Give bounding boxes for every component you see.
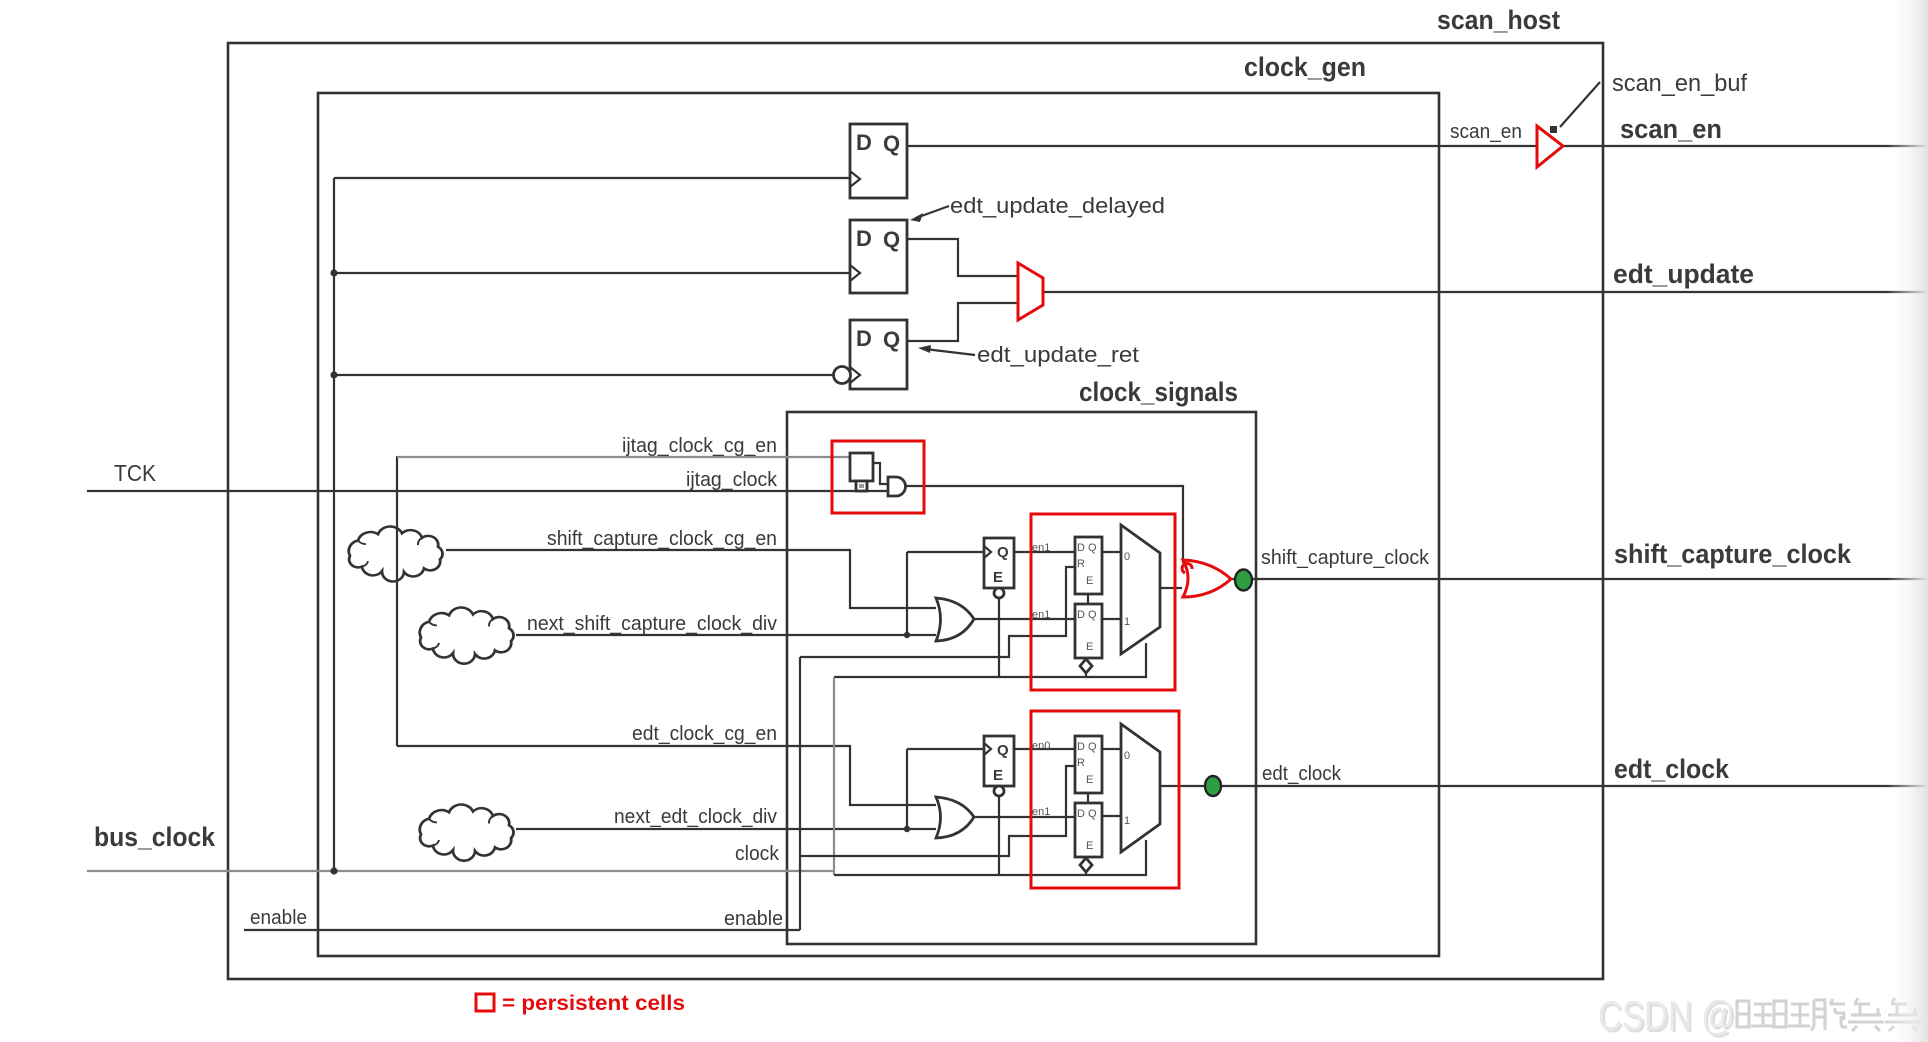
svg-text:scan_host: scan_host bbox=[1437, 5, 1560, 35]
svg-text:shift_capture_clock: shift_capture_clock bbox=[1614, 539, 1852, 569]
svg-text:shift_capture_clock: shift_capture_clock bbox=[1261, 547, 1430, 569]
svg-text:0: 0 bbox=[1124, 750, 1130, 762]
svg-text:CSDN @: CSDN @ bbox=[1598, 992, 1735, 1039]
svg-text:D: D bbox=[856, 326, 872, 351]
svg-text:clock: clock bbox=[735, 843, 780, 865]
svg-text:0: 0 bbox=[1124, 551, 1130, 563]
svg-text:next_edt_clock_div: next_edt_clock_div bbox=[614, 806, 777, 828]
svg-text:D: D bbox=[856, 130, 872, 155]
svg-text:E: E bbox=[993, 767, 1003, 784]
svg-text:shift_capture_clock_cg_en: shift_capture_clock_cg_en bbox=[547, 528, 777, 550]
svg-text:en1: en1 bbox=[1032, 609, 1050, 621]
svg-text:D Q: D Q bbox=[1077, 609, 1097, 621]
svg-text:ijtag_clock_cg_en: ijtag_clock_cg_en bbox=[622, 435, 777, 457]
svg-text:E: E bbox=[1086, 774, 1093, 786]
svg-text:clock_gen: clock_gen bbox=[1244, 52, 1366, 82]
svg-text:edt_clock_cg_en: edt_clock_cg_en bbox=[632, 723, 777, 745]
svg-text:edt_clock: edt_clock bbox=[1614, 754, 1730, 784]
svg-text:R: R bbox=[1077, 757, 1085, 769]
svg-text:E: E bbox=[1086, 641, 1093, 653]
svg-text:scan_en: scan_en bbox=[1620, 114, 1722, 144]
svg-text:ijtag_clock: ijtag_clock bbox=[686, 469, 778, 491]
svg-text:E: E bbox=[1086, 575, 1093, 587]
svg-text:D Q: D Q bbox=[1077, 542, 1097, 554]
svg-text:D Q: D Q bbox=[1077, 741, 1097, 753]
svg-text:enable: enable bbox=[250, 907, 307, 929]
svg-text:scan_en_buf: scan_en_buf bbox=[1612, 70, 1747, 97]
svg-text:E: E bbox=[1086, 840, 1093, 852]
svg-text:Q: Q bbox=[997, 544, 1009, 561]
svg-text:edt_update: edt_update bbox=[1613, 259, 1754, 289]
svg-text:1: 1 bbox=[1124, 616, 1130, 628]
svg-text:enable: enable bbox=[724, 908, 783, 930]
svg-text:Q: Q bbox=[883, 131, 900, 156]
svg-text:edt_clock: edt_clock bbox=[1262, 763, 1342, 785]
svg-text:bus_clock: bus_clock bbox=[94, 822, 216, 852]
svg-text:next_shift_capture_clock_div: next_shift_capture_clock_div bbox=[527, 613, 777, 635]
svg-text:D: D bbox=[856, 226, 872, 251]
svg-text:Q: Q bbox=[883, 227, 900, 252]
svg-text:= persistent cells: = persistent cells bbox=[502, 992, 685, 1015]
svg-text:D Q: D Q bbox=[1077, 808, 1097, 820]
svg-text:TCK: TCK bbox=[114, 460, 157, 486]
svg-text:edt_update_delayed: edt_update_delayed bbox=[950, 193, 1165, 218]
svg-text:en1: en1 bbox=[1032, 542, 1050, 554]
svg-text:Q: Q bbox=[883, 327, 900, 352]
svg-text:Q: Q bbox=[997, 742, 1009, 759]
svg-text:1: 1 bbox=[1124, 815, 1130, 827]
svg-text:E: E bbox=[993, 569, 1003, 586]
svg-text:R: R bbox=[1077, 558, 1085, 570]
svg-text:en0: en0 bbox=[1032, 740, 1050, 752]
svg-text:en1: en1 bbox=[1032, 806, 1050, 818]
svg-text:edt_update_ret: edt_update_ret bbox=[977, 342, 1139, 367]
svg-text:scan_en: scan_en bbox=[1450, 121, 1522, 143]
svg-text:clock_signals: clock_signals bbox=[1079, 377, 1238, 407]
